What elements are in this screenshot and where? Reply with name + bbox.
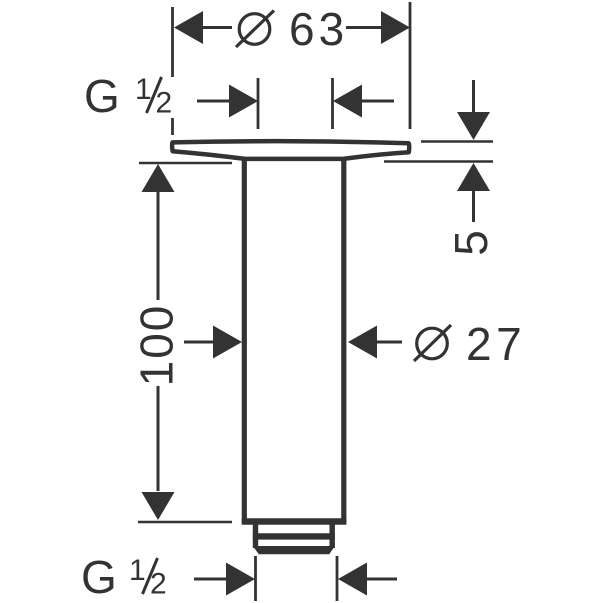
top G½ left arrow (pointing right) [229,85,258,118]
Ø27 right tail [377,341,402,344]
svg-text:2: 2 [156,87,173,120]
bottom G½ left boundary line [254,556,257,601]
svg-text:5: 5 [445,230,497,256]
svg-text:2: 2 [150,568,167,601]
extension line left of Ø63 (upper segment) [171,7,174,77]
svg-text:100: 100 [131,304,183,387]
top G½ right tail [362,100,394,103]
pipe left wall [242,157,247,523]
svg-text:G: G [81,551,117,603]
100-dim lower stem [157,386,160,491]
5-dim lower stem [472,191,475,222]
top G½ right boundary line [331,78,334,129]
bottom G½ left tail [194,578,226,581]
top G½ left tail [197,100,229,103]
5-dim down arrow [457,112,490,140]
dimension Ø63 right tail [346,26,381,29]
svg-text:63: 63 [289,3,348,55]
dimension Ø63 right arrow [381,11,410,44]
bottom G½ right boundary line [336,556,339,601]
extension line left of Ø63 (lower segment below ½ text) [171,118,174,135]
Ø symbol of Ø63 (circle) [239,14,270,45]
pipe bottom edge [242,518,347,525]
svg-text:1: 1 [129,554,146,587]
top G½ right arrow (pointing left) [333,85,362,118]
5-dim lower reference line [384,160,493,163]
bottom G½ right tail [367,578,397,581]
dimension Ø63 left arrow [174,11,203,44]
100-dim upper reference line [139,162,232,165]
svg-text:G: G [84,70,120,122]
extension line right of Ø63 [409,2,412,129]
Ø symbol of Ø27 (slash) [414,325,451,361]
dimension Ø63 left tail [203,26,232,29]
5-dim upper reference line [421,140,493,143]
5-dim up arrow [457,163,490,191]
Ø27 dimension left tail [184,341,213,344]
100-dim upper stem [157,192,160,300]
100-dim down arrow [142,492,175,520]
thread bottom band with chamfered corners [253,546,335,554]
Ø symbol of Ø63 (slash) [236,11,274,48]
100-dim lower reference line [138,521,232,524]
Ø symbol of Ø27 (circle) [417,328,448,359]
flange (escutcheon) outline [172,141,409,159]
threaded connector right edge [330,523,335,548]
top G½ left boundary line [257,78,260,129]
threaded connector left edge [253,523,258,548]
Ø27 left arrow (pointing right) [213,326,242,359]
100-dim up arrow [142,164,175,192]
top G ½ fraction slash [147,77,162,113]
5-dim upper stem [472,80,475,113]
thread stripe [253,533,335,539]
bottom G ½ fraction slash [143,558,158,594]
bottom G½ right arrow (pointing left) [338,563,367,596]
pipe right wall [341,157,346,523]
Ø27 right arrow (pointing left) [348,326,377,359]
svg-text:27: 27 [466,318,526,370]
svg-text:1: 1 [135,73,152,106]
bottom G½ left arrow (pointing right) [226,563,255,596]
